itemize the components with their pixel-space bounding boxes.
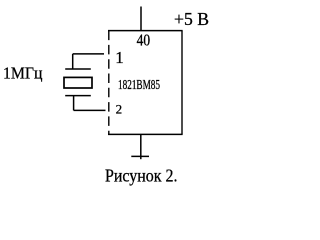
svg-text:Рисунок 2.: Рисунок 2. xyxy=(105,166,178,186)
ground bar xyxy=(131,155,149,157)
crystal ZQ1 body xyxy=(64,77,92,88)
wire +5V supply drop xyxy=(140,7,142,31)
svg-text:+5 В: +5 В xyxy=(174,9,209,29)
svg-text:1МГц: 1МГц xyxy=(3,63,43,82)
wire pin 2 vertical xyxy=(73,96,75,111)
IC U1 box bottom edge xyxy=(108,133,183,135)
wire pin 1 horizontal xyxy=(73,53,104,55)
svg-text:40: 40 xyxy=(137,30,151,49)
svg-text:1: 1 xyxy=(115,48,124,67)
crystal ZQ1 top plate xyxy=(65,68,91,70)
IC U1 box left edge (dashed) xyxy=(108,31,110,135)
wire pin 2 horizontal xyxy=(74,109,106,111)
svg-text:2: 2 xyxy=(116,102,123,117)
op IC U1 box top edge xyxy=(108,30,183,32)
wire pin 1 vertical xyxy=(72,54,74,69)
svg-text:1821ВМ85: 1821ВМ85 xyxy=(118,78,160,93)
wire ground drop xyxy=(140,134,142,159)
IC U1 box right edge xyxy=(181,31,183,135)
crystal ZQ1 bottom plate xyxy=(65,95,91,97)
